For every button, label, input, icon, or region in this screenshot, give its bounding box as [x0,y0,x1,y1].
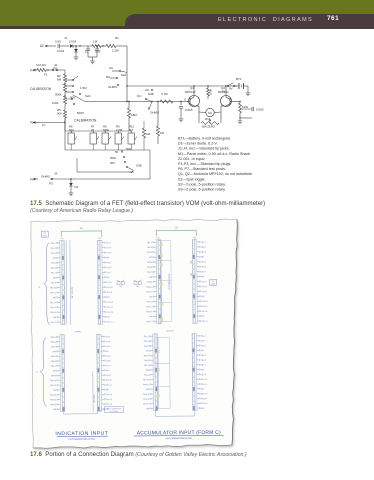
svg-text:BY OTHERS: BY OTHERS [110,411,119,413]
svg-text:TB2-7: TB2-7 [147,272,152,274]
svg-text:2A1-5: 2A1-5 [105,355,110,358]
svg-text:I/O TERMINATION DETAIL: I/O TERMINATION DETAIL [69,438,96,441]
svg-text:TB2-15: TB2-15 [146,311,152,313]
svg-text:TB4-6: TB4-6 [144,360,149,362]
svg-text:1A: 1A [80,226,83,230]
svg-text:2B1-1: 2B1-1 [201,336,206,338]
svg-text:TB1-14: TB1-14 [50,307,56,309]
svg-text:2A1-15: 2A1-15 [106,403,112,406]
svg-text:1B1-1: 1B1-1 [201,242,206,244]
svg-text:2A1-9: 2A1-9 [106,374,111,377]
svg-text:TB1-1: TB1-1 [50,243,55,245]
svg-text:TB3-6: TB3-6 [51,361,56,363]
svg-text:1B1-7: 1B1-7 [201,271,206,273]
svg-text:1B TERM BLOCK: 1B TERM BLOCK [169,273,171,290]
svg-text:D2W: D2W [211,284,215,286]
svg-text:TB3-7: TB3-7 [51,366,56,368]
svg-text:TB4-7: TB4-7 [144,365,149,367]
svg-text:TB2-3: TB2-3 [147,252,152,254]
svg-text:TB1-15: TB1-15 [50,312,56,314]
svg-text:1B1-6: 1B1-6 [201,266,206,268]
svg-text:TB2-5: TB2-5 [147,262,152,264]
svg-text:1A1-11: 1A1-11 [106,291,112,294]
svg-text:2B1-13: 2B1-13 [201,393,207,395]
svg-text:TB4-9: TB4-9 [144,375,149,377]
svg-text:1B1-11: 1B1-11 [201,291,207,293]
svg-text:TB1-11: TB1-11 [50,292,56,294]
svg-text:2B1-9: 2B1-9 [201,374,206,376]
svg-text:TB1-7: TB1-7 [51,272,56,274]
svg-text:I/O TERMINATION DETAIL: I/O TERMINATION DETAIL [166,437,193,440]
svg-text:1A1-10: 1A1-10 [106,286,112,289]
svg-text:TB1-3: TB1-3 [51,253,56,255]
svg-text:2B1-7: 2B1-7 [201,364,206,366]
svg-text:1B1-17: 1B1-17 [202,321,208,323]
svg-text:(SHIELD): (SHIELD) [166,330,174,332]
svg-text:TB1-5: TB1-5 [51,263,56,265]
svg-text:TB3-13: TB3-13 [50,395,56,397]
svg-text:TB4-3: TB4-3 [144,346,149,348]
svg-text:2B1-15: 2B1-15 [201,403,207,405]
svg-text:1A1-9: 1A1-9 [106,281,111,284]
svg-text:1A1-14: 1A1-14 [107,306,113,309]
svg-text:2A1-13: 2A1-13 [106,393,112,396]
svg-text:1A1-5: 1A1-5 [106,261,111,264]
svg-text:TB2-10: TB2-10 [146,287,152,289]
svg-text:TB3-3: TB3-3 [51,346,56,348]
svg-text:TB4-1: TB4-1 [143,336,148,338]
svg-text:1B1-13: 1B1-13 [201,301,207,303]
svg-text:2B1-6: 2B1-6 [201,360,206,362]
svg-text:TB1: TB1 [98,238,101,240]
svg-text:TB4-15: TB4-15 [143,403,149,405]
svg-text:TB3-9: TB3-9 [51,375,56,377]
svg-text:TB1-10: TB1-10 [50,287,56,289]
svg-text:1A1-17: 1A1-17 [107,320,113,323]
svg-text:1B1-3: 1B1-3 [201,252,206,254]
svg-text:TB2-1: TB2-1 [147,242,152,244]
svg-text:1A1-13: 1A1-13 [107,301,113,304]
svg-text:TB1-2: TB1-2 [50,248,55,250]
svg-text:D1W: D1W [43,235,47,237]
svg-text:1A1-6: 1A1-6 [106,266,111,269]
svg-text:TB2-17: TB2-17 [146,321,152,323]
svg-text:1A1-2: 1A1-2 [106,246,111,249]
svg-text:TB3-14: TB3-14 [50,399,56,401]
svg-text:TB4-2: TB4-2 [144,341,149,343]
svg-text:1W1: 1W1 [136,286,139,288]
svg-text:TB1: TB1 [193,237,196,239]
svg-text:TB1-17: TB1-17 [50,322,56,324]
svg-text:2A1-2: 2A1-2 [105,340,110,343]
svg-text:1B1-5: 1B1-5 [201,261,206,263]
svg-text:2A1-6: 2A1-6 [106,359,111,362]
svg-text:TB1-13: TB1-13 [50,302,56,304]
svg-text:2A1-14: 2A1-14 [106,398,112,401]
svg-text:TB2-14: TB2-14 [146,306,152,308]
svg-text:TB1: TB1 [60,238,63,240]
svg-text:1A1-7: 1A1-7 [106,271,111,274]
svg-text:TB3-11: TB3-11 [50,385,56,387]
svg-text:2A1-1: 2A1-1 [105,335,110,338]
svg-text:TB2-11: TB2-11 [146,292,152,294]
svg-text:1B: 1B [175,225,178,229]
svg-text:2A1-3: 2A1-3 [105,345,110,348]
svg-text:TB4-13: TB4-13 [143,394,149,396]
svg-text:1W1: 1W1 [119,286,122,288]
svg-text:TB3-2: TB3-2 [51,342,56,344]
svg-text:(SPARE): (SPARE) [75,330,82,333]
svg-text:2A1-7: 2A1-7 [106,364,111,367]
svg-text:TB2-9: TB2-9 [147,282,152,284]
svg-text:TB3-1: TB3-1 [50,337,55,339]
svg-text:TB3-5: TB3-5 [51,356,56,358]
svg-text:1B1-2: 1B1-2 [201,247,206,249]
svg-text:2B1-10: 2B1-10 [201,379,207,381]
svg-text:1A1-15: 1A1-15 [107,311,113,314]
svg-text:2A1-10: 2A1-10 [106,379,112,382]
svg-text:1A1-3: 1A1-3 [106,251,111,254]
svg-text:TB4-11: TB4-11 [143,384,149,386]
svg-text:TB4-14: TB4-14 [143,399,149,401]
svg-text:TB2-13: TB2-13 [146,301,152,303]
svg-text:2B1-3: 2B1-3 [201,345,206,347]
svg-text:2B1-2: 2B1-2 [201,340,206,342]
svg-text:TB1-6: TB1-6 [51,268,56,270]
svg-text:2B1-11: 2B1-11 [201,384,207,386]
svg-text:1B1-14: 1B1-14 [201,306,207,308]
svg-text:1A1-1: 1A1-1 [106,241,111,244]
svg-text:1B1-9: 1B1-9 [201,281,206,283]
svg-text:TB4-10: TB4-10 [143,379,149,381]
svg-text:TB2-6: TB2-6 [147,267,152,269]
svg-text:TB1-9: TB1-9 [51,282,56,284]
svg-text:TB3-15: TB3-15 [50,404,56,406]
svg-text:TB2-2: TB2-2 [147,247,152,249]
svg-text:2A1-11: 2A1-11 [106,383,112,386]
svg-text:TB1: TB1 [157,237,160,239]
svg-text:1B1-15: 1B1-15 [201,311,207,313]
svg-text:2B1-5: 2B1-5 [201,355,206,357]
svg-text:2B1-14: 2B1-14 [201,398,207,400]
svg-text:RG-58/U: RG-58/U [94,394,96,402]
svg-text:TB4-5: TB4-5 [144,355,149,357]
svg-text:TB 1 (24 PT): TB 1 (24 PT) [72,287,74,299]
svg-text:1B1-10: 1B1-10 [201,286,207,288]
svg-text:TB3-10: TB3-10 [50,380,56,382]
